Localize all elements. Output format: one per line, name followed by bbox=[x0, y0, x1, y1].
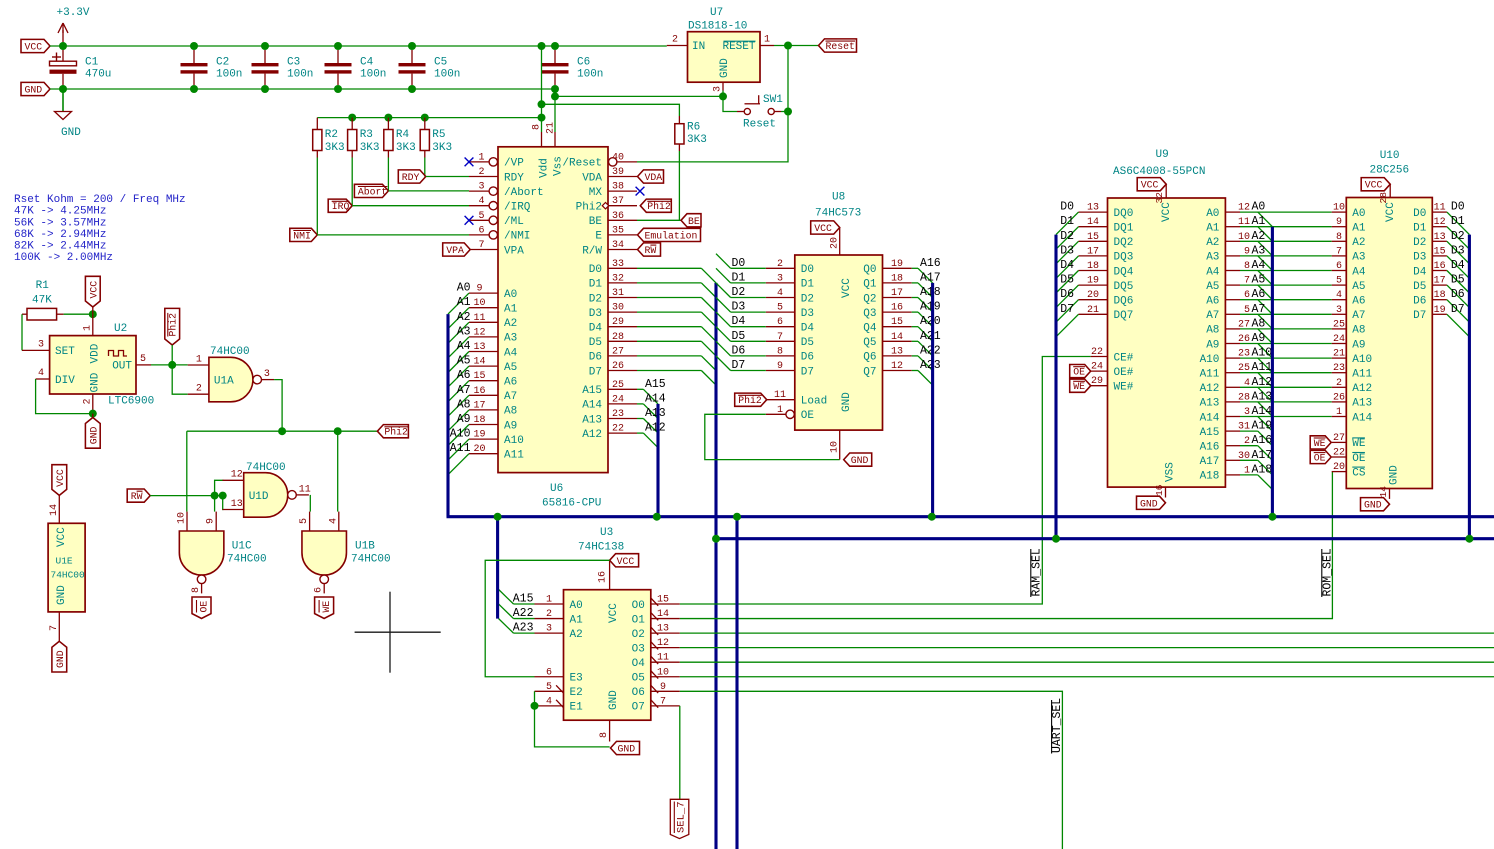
junction bus A12-15 bbox=[653, 513, 661, 521]
svg-text:13: 13 bbox=[657, 624, 669, 635]
pin 31 D2 bbox=[589, 288, 637, 305]
svg-text:10: 10 bbox=[657, 667, 669, 678]
bus entry A10 bbox=[448, 439, 469, 460]
svg-text:D2: D2 bbox=[1451, 230, 1465, 243]
gate U1C 74HC00 bbox=[177, 512, 267, 594]
U3 pin 4 E1 bbox=[535, 696, 584, 713]
pin 7 VPA bbox=[469, 240, 524, 257]
svg-text:82K -> 2.44MHz: 82K -> 2.44MHz bbox=[14, 241, 106, 253]
svg-text:Phi2: Phi2 bbox=[576, 202, 602, 214]
wire D3 to bus bbox=[637, 311, 701, 313]
wire D0 to bus bbox=[637, 267, 701, 269]
svg-text:D4: D4 bbox=[589, 323, 603, 335]
pin 2 RDY bbox=[469, 167, 524, 184]
wire U8 D5 bbox=[731, 340, 766, 342]
svg-text:WE: WE bbox=[1314, 438, 1326, 449]
U9 pin 14 DQ1 bbox=[1060, 215, 1134, 234]
label WE at U9 bbox=[1070, 379, 1091, 392]
U9 pin 17 DQ3 bbox=[1060, 244, 1133, 263]
svg-text:DS1818-10: DS1818-10 bbox=[688, 21, 747, 33]
svg-text:C4: C4 bbox=[360, 57, 374, 69]
svg-text:13: 13 bbox=[473, 342, 485, 353]
svg-text:Q3: Q3 bbox=[863, 308, 876, 320]
bus entry A12 bbox=[643, 433, 658, 448]
bus entry U8 D3 bbox=[716, 298, 731, 313]
svg-text:A7: A7 bbox=[1206, 310, 1219, 322]
svg-text:D2: D2 bbox=[589, 293, 602, 305]
U10 pin 12 D1 bbox=[1413, 215, 1465, 234]
svg-text:A15: A15 bbox=[645, 378, 666, 391]
svg-text:Q0: Q0 bbox=[863, 264, 876, 276]
wire U8 D7 bbox=[731, 370, 766, 372]
svg-text:A3: A3 bbox=[1206, 252, 1219, 264]
svg-text:U1C: U1C bbox=[232, 541, 252, 553]
bus entry A23 bbox=[918, 371, 933, 386]
U8 pin 11 Load bbox=[766, 390, 827, 407]
junction bus U3 bbox=[494, 513, 502, 521]
svg-text:C6: C6 bbox=[577, 57, 590, 69]
pin 10 A1 bbox=[457, 296, 518, 315]
wire U1D out to U1B pin5 bbox=[309, 495, 311, 512]
bus entry U9 D0 bbox=[1056, 212, 1079, 235]
svg-text:24: 24 bbox=[612, 394, 624, 405]
svg-text:U7: U7 bbox=[710, 7, 723, 19]
svg-text:D0: D0 bbox=[589, 264, 602, 276]
bus entry mid A18 bbox=[1258, 475, 1273, 490]
pin 33 D0 bbox=[589, 259, 637, 276]
U10 pin 21 A10 bbox=[1332, 349, 1372, 366]
svg-text:16: 16 bbox=[1154, 484, 1165, 496]
pin 36 BE bbox=[589, 211, 637, 228]
U10 pin 10 A0 bbox=[1332, 203, 1366, 220]
svg-text:D1: D1 bbox=[1060, 215, 1074, 228]
svg-text:20: 20 bbox=[473, 444, 485, 455]
svg-text:O7: O7 bbox=[632, 702, 645, 714]
svg-text:25: 25 bbox=[612, 380, 624, 391]
label Phi2 at U8 Load bbox=[735, 393, 767, 406]
svg-text:O1: O1 bbox=[632, 614, 646, 626]
wire U7 GND pin3 to Vss column bbox=[555, 91, 723, 97]
resistor R3 3K3 bbox=[348, 118, 380, 158]
pin 16 A7 bbox=[457, 384, 518, 403]
junction Vdd/R6 feed bbox=[538, 100, 546, 108]
svg-text:VDD: VDD bbox=[90, 343, 102, 363]
bus entry A19 bbox=[918, 312, 933, 327]
svg-text:GND: GND bbox=[56, 585, 68, 605]
pin 3 /Abort bbox=[469, 182, 544, 199]
svg-text:GND: GND bbox=[618, 744, 636, 755]
svg-text:27: 27 bbox=[1333, 433, 1345, 444]
svg-text:5: 5 bbox=[478, 211, 484, 222]
svg-text:9: 9 bbox=[777, 361, 783, 372]
svg-text:IRQ: IRQ bbox=[332, 201, 350, 212]
bus entry mid A6 bbox=[1258, 300, 1273, 315]
svg-text:A23: A23 bbox=[920, 359, 941, 372]
wire A2 U9 to U10 bbox=[1240, 240, 1332, 242]
svg-text:3K3: 3K3 bbox=[396, 142, 416, 154]
svg-text:Reset: Reset bbox=[743, 119, 776, 131]
U10 pin 2 A12 bbox=[1332, 378, 1372, 395]
wire A3 U9 to U10 bbox=[1240, 255, 1332, 257]
svg-text:18: 18 bbox=[473, 415, 485, 426]
svg-text:GND: GND bbox=[1140, 498, 1158, 509]
svg-text:17: 17 bbox=[891, 288, 903, 299]
svg-text:U9: U9 bbox=[1156, 149, 1169, 161]
svg-text:11: 11 bbox=[774, 390, 786, 401]
pin 1 RESET bbox=[760, 45, 774, 47]
svg-text:DQ3: DQ3 bbox=[1114, 252, 1134, 264]
bus entry U10 D3 bbox=[1447, 256, 1470, 279]
svg-text:100K -> 2.00MHz: 100K -> 2.00MHz bbox=[14, 252, 113, 264]
label RW pin34 bbox=[638, 243, 661, 256]
label VPA bbox=[443, 243, 471, 256]
capacitor C6 100n bbox=[542, 50, 604, 85]
svg-text:A21: A21 bbox=[920, 330, 941, 343]
pin 6 /NMI bbox=[469, 225, 530, 242]
svg-text:29: 29 bbox=[1091, 376, 1103, 387]
svg-text:Phi2: Phi2 bbox=[738, 395, 762, 406]
svg-text:A22: A22 bbox=[920, 344, 941, 357]
pin 40 /Reset bbox=[609, 152, 638, 166]
svg-text:U1E: U1E bbox=[56, 556, 73, 567]
wire A9 U9 to U10 bbox=[1240, 343, 1332, 345]
U8 pin 5 D3 bbox=[732, 301, 815, 320]
U9 pin 20 DQ6 bbox=[1060, 288, 1133, 307]
svg-text:VCC: VCC bbox=[56, 527, 68, 547]
resistor R5 3K3 bbox=[420, 118, 452, 158]
svg-text:17: 17 bbox=[473, 400, 485, 411]
U8 pin 4 D2 bbox=[732, 286, 815, 305]
power label GND below U10 bbox=[1361, 498, 1390, 511]
bus entry mid A9 bbox=[1258, 344, 1273, 359]
U3 pin 2 A1 bbox=[535, 609, 584, 626]
bus U8 outputs A16-A23 bbox=[931, 283, 934, 517]
svg-text:5: 5 bbox=[140, 354, 146, 365]
svg-text:8: 8 bbox=[777, 346, 783, 357]
svg-text:U1B: U1B bbox=[355, 541, 375, 553]
svg-text:A6: A6 bbox=[457, 369, 471, 382]
svg-text:A10: A10 bbox=[1352, 354, 1372, 366]
junction dots on GND rail bbox=[59, 85, 559, 93]
svg-text:A1: A1 bbox=[504, 304, 518, 316]
svg-text:5: 5 bbox=[1336, 276, 1342, 287]
svg-text:22: 22 bbox=[1091, 347, 1103, 358]
svg-text:74HC00: 74HC00 bbox=[210, 346, 250, 358]
pin 11 A2 bbox=[457, 311, 518, 330]
svg-text:A5: A5 bbox=[1206, 281, 1219, 293]
svg-text:9: 9 bbox=[660, 682, 666, 693]
svg-text:1: 1 bbox=[83, 325, 94, 331]
svg-text:74HC00: 74HC00 bbox=[351, 554, 391, 566]
svg-text:GND: GND bbox=[1389, 465, 1401, 485]
bus entry mid A1 bbox=[1258, 227, 1273, 242]
junction bus mid bbox=[1268, 513, 1276, 521]
svg-text:RAM_SEL: RAM_SEL bbox=[1031, 548, 1044, 596]
svg-text:D3: D3 bbox=[1060, 244, 1074, 257]
U3 pin 8 GND bbox=[599, 720, 610, 741]
svg-text:DQ4: DQ4 bbox=[1114, 266, 1134, 278]
U10 pin 24 A9 bbox=[1332, 334, 1366, 351]
label SEL_7 bbox=[670, 799, 689, 838]
bus U9 data bbox=[1054, 235, 1057, 539]
wire U8 D2 bbox=[731, 297, 766, 299]
svg-text:19: 19 bbox=[1087, 276, 1099, 287]
U8 pin 19 Q0 bbox=[863, 257, 941, 276]
U3 pin 13 O2 bbox=[632, 624, 680, 641]
svg-text:A17: A17 bbox=[1200, 456, 1220, 468]
svg-text:12: 12 bbox=[891, 361, 903, 372]
svg-text:D7: D7 bbox=[801, 366, 814, 378]
pin 5 /ML bbox=[465, 211, 524, 228]
svg-text:10: 10 bbox=[473, 298, 485, 309]
svg-text:13: 13 bbox=[891, 346, 903, 357]
bus entry mid A5 bbox=[1258, 285, 1273, 300]
svg-text:33: 33 bbox=[612, 259, 624, 270]
U9 pin 16 VSS bbox=[1154, 484, 1166, 497]
wire A12 U9 to U10 bbox=[1240, 386, 1332, 388]
pin 3 SET bbox=[22, 349, 50, 351]
IC U3 74HC138 bbox=[564, 527, 651, 720]
power label VCC above U10 bbox=[1361, 178, 1390, 204]
svg-text:4: 4 bbox=[478, 196, 484, 207]
svg-text:A9: A9 bbox=[457, 413, 471, 426]
label OE below U1C bbox=[192, 597, 211, 619]
svg-text:A0: A0 bbox=[1206, 208, 1219, 220]
junction dots on VCC rail bbox=[59, 42, 559, 50]
svg-text:1: 1 bbox=[546, 595, 552, 606]
svg-text:8: 8 bbox=[191, 587, 202, 593]
svg-text:A15: A15 bbox=[513, 593, 534, 606]
svg-text:16: 16 bbox=[598, 571, 609, 583]
junction pullup rail bbox=[421, 114, 429, 122]
svg-text:/Reset: /Reset bbox=[562, 158, 602, 170]
bus entry U9 D7 bbox=[1056, 314, 1079, 337]
note frequency table bbox=[14, 194, 186, 264]
U9 pin 13 DQ0 bbox=[1060, 201, 1133, 220]
junction U2 GND bbox=[89, 410, 97, 418]
bus CPU A0-A11 bbox=[446, 314, 449, 517]
power label VCC above U1E bbox=[52, 465, 67, 496]
U8 pin 13 Q6 bbox=[863, 344, 941, 363]
svg-text:Phi2: Phi2 bbox=[168, 313, 179, 337]
svg-text:13: 13 bbox=[1434, 232, 1446, 243]
wire A16 bbox=[1240, 445, 1258, 447]
svg-text:SW1: SW1 bbox=[763, 94, 783, 106]
svg-text:A10: A10 bbox=[1200, 354, 1220, 366]
wire D7 to bus bbox=[637, 370, 701, 372]
wire U1A out to feedback rail bbox=[274, 380, 282, 432]
svg-text:3K3: 3K3 bbox=[360, 142, 380, 154]
IC U1E 74HC00 power unit bbox=[48, 495, 85, 641]
svg-text:15: 15 bbox=[891, 317, 903, 328]
svg-text:IN: IN bbox=[692, 41, 705, 53]
svg-text:DQ6: DQ6 bbox=[1114, 296, 1134, 308]
U9 pin 9 A3 bbox=[1206, 244, 1265, 263]
svg-text:DIV: DIV bbox=[55, 375, 75, 387]
U10 pin 17 D5 bbox=[1413, 274, 1465, 293]
svg-text:A6: A6 bbox=[1206, 296, 1219, 308]
U10 pin 7 A3 bbox=[1332, 246, 1366, 263]
bus entry U9 D3 bbox=[1056, 256, 1079, 279]
svg-text:10: 10 bbox=[830, 441, 841, 453]
U9 pin 1 A18 bbox=[1200, 463, 1273, 482]
U9 pin 31 A15 bbox=[1200, 420, 1273, 439]
U9 pin 2 A16 bbox=[1200, 434, 1273, 453]
wire U7 RESET out to Reset label bbox=[774, 45, 819, 47]
svg-text:A14: A14 bbox=[645, 392, 666, 405]
svg-text:A7: A7 bbox=[504, 391, 517, 403]
svg-text:A8: A8 bbox=[1352, 325, 1365, 337]
svg-text:14: 14 bbox=[891, 332, 903, 343]
pin 19 A10 bbox=[450, 428, 524, 447]
svg-text:A5: A5 bbox=[457, 355, 471, 368]
power label GND below U9 bbox=[1137, 496, 1166, 509]
wire Phi2 feedback rail bbox=[187, 430, 378, 432]
wire U8 Q5 bbox=[912, 340, 918, 342]
svg-text:2: 2 bbox=[672, 35, 678, 46]
svg-text:D0: D0 bbox=[801, 264, 814, 276]
cursor crosshair bbox=[355, 592, 441, 673]
svg-text:25: 25 bbox=[1333, 319, 1345, 330]
pin 38 MX bbox=[589, 182, 637, 199]
svg-text:36: 36 bbox=[612, 211, 624, 222]
U9 pin 11 A1 bbox=[1206, 215, 1265, 234]
U10 pin 6 A4 bbox=[1332, 261, 1366, 278]
U10 pin 22 OE bbox=[1332, 448, 1366, 465]
svg-text:39: 39 bbox=[612, 167, 624, 178]
power label GND below U2 bbox=[85, 414, 100, 449]
U9 pin 19 DQ5 bbox=[1060, 274, 1133, 293]
svg-text:A8: A8 bbox=[457, 398, 471, 411]
svg-text:BE: BE bbox=[589, 216, 603, 228]
svg-text:RDY: RDY bbox=[402, 172, 420, 183]
svg-text:8: 8 bbox=[599, 732, 610, 738]
svg-text:1: 1 bbox=[1336, 407, 1342, 418]
svg-text:3: 3 bbox=[478, 182, 484, 193]
svg-text:3K3: 3K3 bbox=[432, 142, 452, 154]
svg-text:R5: R5 bbox=[432, 129, 445, 141]
power label VCC above U8 bbox=[811, 221, 841, 255]
wire A23 into U3 bbox=[514, 632, 535, 634]
svg-text:A6: A6 bbox=[504, 377, 517, 389]
bus entry U8 D4 bbox=[716, 312, 731, 327]
svg-text:GND: GND bbox=[841, 392, 853, 412]
junction U1A out bbox=[278, 427, 286, 435]
svg-text:U8: U8 bbox=[832, 192, 845, 204]
wire D2 to bus bbox=[637, 297, 701, 299]
U9 pin 21 DQ7 bbox=[1060, 303, 1133, 322]
svg-text:A0: A0 bbox=[1352, 208, 1365, 220]
svg-text:OE: OE bbox=[199, 601, 210, 613]
svg-text:7: 7 bbox=[1336, 246, 1342, 257]
U9 pin 5 A7 bbox=[1206, 303, 1265, 322]
pin 9 A0 bbox=[457, 282, 518, 301]
svg-text:GND: GND bbox=[851, 455, 869, 466]
svg-text:2: 2 bbox=[83, 398, 94, 404]
svg-text:A0: A0 bbox=[457, 282, 471, 295]
svg-text:3: 3 bbox=[713, 86, 724, 92]
bus entry A23 bbox=[499, 619, 514, 634]
svg-text:Rset Kohm = 200 / Freq MHz: Rset Kohm = 200 / Freq MHz bbox=[14, 194, 186, 206]
U9 pin 18 DQ4 bbox=[1060, 259, 1134, 278]
svg-text:VDA: VDA bbox=[582, 172, 602, 184]
svg-text:Q2: Q2 bbox=[863, 293, 876, 305]
svg-text:A1: A1 bbox=[1352, 223, 1366, 235]
svg-text:E: E bbox=[595, 231, 602, 243]
svg-text:DQ5: DQ5 bbox=[1114, 281, 1134, 293]
svg-text:6: 6 bbox=[478, 225, 484, 236]
junction Reset net bbox=[784, 42, 792, 50]
pin 14 A5 bbox=[457, 355, 518, 374]
junction data bus U10 bbox=[1465, 535, 1473, 543]
junction R1/VCC/U2 VDD bbox=[89, 310, 97, 318]
label Abort bbox=[354, 184, 388, 197]
wire A14 bbox=[637, 403, 643, 405]
svg-text:ROM_SEL: ROM_SEL bbox=[1321, 548, 1334, 596]
svg-text:A2: A2 bbox=[570, 629, 583, 641]
U3 pin 6 E3 bbox=[535, 667, 583, 684]
svg-text:RDY: RDY bbox=[504, 172, 524, 184]
U9 pin 30 A17 bbox=[1200, 449, 1273, 468]
wire to U1D pin13 bbox=[222, 496, 225, 510]
svg-text:D4: D4 bbox=[801, 323, 815, 335]
svg-text:DQ1: DQ1 bbox=[1114, 223, 1134, 235]
IC U8 74HC573 bbox=[795, 192, 883, 431]
svg-text:Q1: Q1 bbox=[863, 279, 877, 291]
pin 3 GND bbox=[722, 82, 724, 90]
svg-text:17: 17 bbox=[1087, 246, 1099, 257]
wire A8 U9 to U10 bbox=[1240, 328, 1332, 330]
gate U1A 74HC00 bbox=[188, 346, 274, 402]
bus entry A14 bbox=[643, 404, 658, 419]
svg-text:VCC: VCC bbox=[608, 603, 620, 623]
svg-text:R6: R6 bbox=[687, 122, 700, 134]
bus entry A22 bbox=[918, 356, 933, 371]
svg-text:56K -> 3.57MHz: 56K -> 3.57MHz bbox=[14, 217, 106, 229]
wire VCC to R6 bbox=[542, 104, 680, 116]
svg-text:R4: R4 bbox=[396, 129, 410, 141]
wire U8 Q1 bbox=[912, 282, 918, 284]
wire O6 UART_SEL bbox=[680, 691, 1063, 849]
U9 pin 8 A4 bbox=[1206, 259, 1265, 278]
svg-text:47K: 47K bbox=[32, 295, 52, 307]
svg-text:9: 9 bbox=[1336, 217, 1342, 228]
svg-text:21: 21 bbox=[546, 122, 557, 134]
svg-text:7: 7 bbox=[49, 625, 60, 631]
svg-text:27: 27 bbox=[612, 346, 624, 357]
svg-text:3: 3 bbox=[264, 369, 270, 380]
svg-text:11: 11 bbox=[1434, 203, 1446, 214]
U9 pin 15 DQ2 bbox=[1060, 230, 1133, 249]
svg-text:A18: A18 bbox=[1200, 471, 1220, 483]
bus horizontal address bbox=[447, 515, 1494, 518]
wire O3 bbox=[680, 647, 1494, 649]
svg-text:8: 8 bbox=[532, 124, 543, 130]
U3 pin 14 O1 bbox=[632, 609, 680, 626]
wire A4 U9 to U10 bbox=[1240, 270, 1332, 272]
svg-text:1: 1 bbox=[764, 35, 770, 46]
svg-text:47K -> 4.25MHz: 47K -> 4.25MHz bbox=[14, 206, 106, 218]
U9 pin 3 A14 bbox=[1200, 405, 1273, 424]
wire R1 left to SET bbox=[21, 314, 23, 350]
svg-text:37: 37 bbox=[612, 196, 624, 207]
U9 pin 22 CE# bbox=[1091, 347, 1134, 364]
svg-text:7: 7 bbox=[777, 332, 783, 343]
svg-text:A9: A9 bbox=[504, 420, 517, 432]
svg-text:9: 9 bbox=[476, 284, 482, 295]
svg-text:/NMI: /NMI bbox=[504, 231, 530, 243]
bus entry mid A0 bbox=[1258, 212, 1273, 227]
